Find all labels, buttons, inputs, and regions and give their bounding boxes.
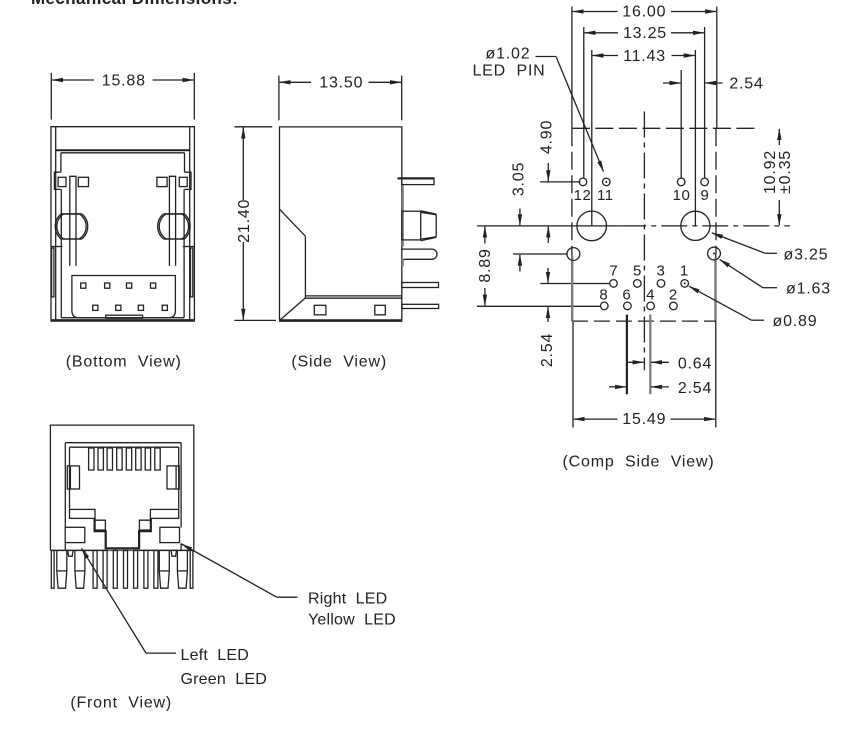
pin 1 hole (681, 280, 689, 288)
right latch square inner (157, 177, 167, 186)
dim 13.25 ext right (704, 27, 706, 178)
pin hole A2 (105, 283, 110, 288)
dim 15.88 arrow right (153, 79, 194, 81)
shelf square left (314, 305, 326, 315)
dim 21.40 bottom extension line (234, 319, 276, 321)
pin 4 hole (647, 302, 655, 310)
svg-text:(Side View): (Side View) (291, 354, 387, 371)
component outline left edge dashed (571, 128, 573, 321)
dim 15.49 ext left (572, 322, 574, 428)
interior floor line (61, 317, 184, 319)
left contact shaft (70, 176, 76, 266)
bottom view inner wall right (189, 127, 191, 320)
leader right LED diagonal (182, 544, 277, 597)
top band lower thin line (61, 152, 185, 154)
big hole left (577, 211, 607, 241)
svg-text:Mechanical Dimensions:: Mechanical Dimensions: (31, 0, 238, 8)
svg-text:9: 9 (700, 187, 709, 204)
svg-text:4: 4 (646, 287, 655, 304)
lower diagonal to corner (280, 298, 305, 320)
svg-text:ø1.63: ø1.63 (786, 280, 831, 297)
dim 0.64 arrow left (651, 361, 669, 363)
dim 13.50 arrow left (280, 81, 311, 83)
pin 10 hole (677, 178, 685, 186)
right latch square outer (179, 177, 187, 186)
dim 4.90 arrow up (547, 227, 549, 243)
dim 16.00 arrow left (573, 11, 618, 13)
dim 15.49 arrow left (574, 418, 618, 420)
contact pin 3 (113, 550, 117, 588)
dim 11.43 ext right (694, 50, 696, 226)
dim 21.40 arrow up (242, 128, 244, 201)
svg-text:ø3.25: ø3.25 (784, 246, 829, 263)
internal vertical line (304, 236, 306, 298)
component outline right edge dashed (715, 128, 717, 254)
pin4 column line gray (649, 315, 651, 395)
big hole right (681, 211, 710, 240)
pin 9 hole (701, 178, 709, 186)
leg R2 (177, 550, 187, 588)
dim 16.00 ext left (571, 7, 573, 129)
leader 0.89 diagonal (689, 286, 752, 320)
dim 3.05 arrow up (519, 255, 521, 272)
left side latch (67, 466, 79, 489)
dim 2.54 bottom arrow right (609, 386, 626, 388)
middle pin (402, 283, 439, 288)
left notch (54, 172, 61, 189)
right side latch divider (175, 466, 177, 489)
latch slot floor gray (106, 549, 139, 551)
dim 15.88 extension line left (50, 73, 52, 120)
svg-text:10: 10 (673, 187, 691, 204)
opening inner wall left (69, 447, 71, 508)
pin hole B2 (116, 305, 121, 310)
right side latch (167, 466, 179, 489)
pin hole A1 (81, 283, 86, 288)
LED housing rect (402, 211, 421, 240)
pin 11 hole (603, 178, 611, 186)
pin housing rectangle (72, 276, 175, 318)
contact pin 7 (154, 550, 158, 588)
component outline bottom edge dashed (572, 320, 716, 322)
bottom view outer body outline (51, 127, 194, 320)
svg-text:7: 7 (609, 263, 618, 280)
contact pin 5 (134, 550, 138, 588)
svg-text:8: 8 (599, 287, 608, 304)
top band bottom thick line (56, 149, 190, 151)
side view body outline (280, 127, 402, 320)
svg-text:LED PIN: LED PIN (472, 63, 545, 80)
left boss bottom flat (61, 238, 81, 240)
right wall stub below window (180, 543, 182, 550)
latch slot floor (105, 547, 140, 549)
hole 1.63 left (567, 248, 580, 261)
dim 16.00 ext right (716, 7, 718, 129)
left column line (60, 153, 62, 172)
leg L1 (57, 550, 67, 588)
opening outer top (65, 442, 181, 444)
dim 10.92 arrow up (778, 129, 780, 145)
center bottom tab (106, 315, 143, 318)
leader 3.25 horizontal (765, 252, 777, 254)
dim 13.50 extension line right (401, 76, 403, 121)
contact pin 1 (93, 550, 97, 588)
svg-text:5: 5 (633, 263, 642, 280)
ext line pin12 row (540, 181, 580, 183)
opening outer wall left (64, 443, 66, 528)
LED dome right edge (435, 214, 437, 237)
dim 21.40 top extension line (234, 126, 272, 128)
gray edge segment upper (402, 186, 404, 247)
LED dome bottom wedge (421, 237, 437, 241)
pin hole B1 (93, 305, 98, 310)
opening outer wall right (180, 443, 182, 528)
latch slot right steps (139, 518, 151, 548)
gray edge segment lower (402, 260, 404, 267)
svg-text:±0.35: ±0.35 (777, 150, 794, 194)
component outline top edge dashed (572, 127, 760, 129)
side view bottom thick edge (279, 319, 402, 322)
svg-text:3.05: 3.05 (510, 162, 527, 196)
svg-text:ø1.02: ø1.02 (486, 45, 531, 62)
hook pin (402, 249, 437, 259)
ext line pin7 row (540, 283, 610, 285)
right step thin echo (139, 520, 149, 530)
contact pin 4 (124, 550, 128, 588)
dim 8.89 arrow up (484, 227, 486, 244)
left LED foot (68, 550, 73, 556)
svg-text:2.54: 2.54 (678, 380, 712, 397)
dim 0.64 arrow right (628, 361, 644, 363)
leader left LED horizontal (146, 652, 176, 654)
svg-text:ø0.89: ø0.89 (773, 313, 818, 330)
shelf square right (375, 305, 386, 315)
component outline left edge gray (571, 256, 573, 321)
left wall stub below window (64, 543, 66, 550)
pin 11 center dot (605, 181, 607, 183)
pin 5 hole (634, 280, 642, 288)
svg-text:4.90: 4.90 (538, 120, 555, 154)
leader left LED diagonal (82, 548, 147, 653)
leg L2 (75, 550, 85, 588)
leg R1 seam (159, 570, 169, 572)
right inner ledge line (183, 246, 195, 248)
right boss top flat (164, 213, 184, 215)
bottom view bottom thick edge (50, 319, 195, 322)
right LED foot (171, 550, 176, 556)
shelf double line upper (305, 295, 401, 297)
pin 3 hole (657, 280, 665, 288)
svg-text:15.88: 15.88 (102, 72, 146, 89)
svg-text:8.89: 8.89 (477, 248, 494, 282)
dim 3.05 arrow down (519, 209, 521, 226)
left step thin echo (95, 520, 105, 530)
pin hole B4 (162, 305, 167, 310)
pin hole B3 (138, 305, 143, 310)
leg R1 (159, 550, 169, 588)
dim 15.49 arrow right (671, 418, 716, 420)
dim 2.54 top ext line pin10 (680, 70, 682, 178)
svg-text:(Comp Side View): (Comp Side View) (563, 454, 715, 471)
svg-text:11: 11 (597, 187, 614, 204)
upper diagonal cut line (280, 209, 306, 236)
leader right LED horizontal (277, 596, 298, 598)
right wall slot (191, 248, 193, 297)
left side latch divider (69, 466, 71, 489)
dim 4.90 arrow down (547, 163, 549, 181)
svg-text:11.43: 11.43 (623, 48, 666, 65)
right contact shaft (169, 176, 175, 266)
pin hole A3 (127, 283, 132, 288)
dim 13.50 extension line left (278, 76, 280, 121)
left inner ledge line (51, 246, 63, 248)
left LED window (65, 527, 85, 542)
pin 2 hole (670, 302, 678, 310)
svg-text:16.00: 16.00 (622, 4, 666, 21)
leg R2 seam (177, 570, 187, 572)
hole 1.63 right (708, 247, 721, 260)
left boss top flat (61, 213, 81, 215)
svg-text:(Front View): (Front View) (70, 695, 172, 712)
dim 11.43 arrow left (593, 55, 619, 57)
top flat pin upper lip (398, 177, 435, 179)
pin6 column line (626, 315, 628, 395)
pin 7 hole (610, 280, 618, 288)
leader 0.89 horizontal (752, 319, 765, 321)
comb right bar (190, 550, 193, 588)
svg-text:3: 3 (656, 263, 665, 280)
component outline right edge solid (715, 254, 717, 428)
dim 13.25 arrow right (671, 32, 704, 34)
dim 13.25 ext left (583, 27, 585, 178)
opening inner top (70, 446, 179, 448)
svg-text:21.40: 21.40 (236, 199, 253, 243)
dim 2.54 top arrow right (705, 82, 722, 84)
bottom view inner wall left (55, 127, 57, 320)
dim 16.00 arrow right (671, 11, 716, 13)
horizontal centerline (620, 225, 790, 227)
right LED window (160, 527, 180, 542)
left wall slot (52, 248, 54, 297)
leader 1.63 horizontal (763, 287, 777, 289)
dim 11.43 arrow right (672, 55, 695, 57)
ext line hole163 row (513, 253, 567, 255)
pin 1 center dot (684, 282, 686, 284)
svg-text:13.25: 13.25 (623, 25, 667, 42)
top flat pin (402, 178, 434, 184)
right column line (184, 153, 186, 172)
pin 12 hole (579, 178, 587, 186)
dim 13.25 arrow left (585, 32, 619, 34)
left latch square outer (58, 177, 66, 186)
front body bottom line (50, 549, 193, 551)
svg-text:Green LED: Green LED (181, 671, 267, 688)
dim 15.88 arrow left (52, 79, 94, 81)
left latch square inner (78, 177, 88, 186)
dim 2.54 top arrow left (663, 82, 681, 84)
leader LED pin diagonal (556, 57, 604, 172)
dim 2.54 left arrow down (547, 268, 549, 283)
LED dome top wedge (421, 211, 437, 215)
dim 8.89 arrow down (484, 288, 486, 306)
svg-text:Yellow LED: Yellow LED (308, 612, 396, 629)
right shelf rect (150, 509, 178, 518)
right notch (185, 172, 192, 189)
leader 3.25 diagonal (712, 233, 765, 253)
right boss bottom flat (164, 238, 184, 240)
dim 2.54 bottom arrow left (651, 386, 669, 388)
leg L1 seam (57, 570, 67, 572)
contact pin 6 (144, 550, 148, 588)
left lower wall line (60, 189, 62, 317)
svg-text:13.50: 13.50 (319, 75, 363, 92)
contact teeth (89, 448, 161, 470)
right lower wall line (183, 189, 185, 317)
dim 15.88 extension line right (193, 73, 195, 120)
hole 1.63 right center dot (713, 253, 715, 255)
front outer shield outline (50, 425, 193, 550)
svg-text:12: 12 (574, 187, 592, 204)
vertical centerline (643, 112, 645, 371)
svg-text:Right LED: Right LED (308, 591, 387, 608)
shelf double line lower (305, 297, 401, 299)
bottom pin (402, 304, 439, 308)
latch slot left steps (95, 518, 106, 548)
dim 2.54 left arrow up (547, 307, 549, 322)
comb left bar (51, 550, 54, 588)
svg-text:2.54: 2.54 (539, 333, 556, 367)
left shelf rect (70, 509, 96, 518)
component outline right edge gray (714, 258, 716, 322)
svg-text:15.49: 15.49 (622, 411, 666, 428)
svg-text:0.64: 0.64 (678, 355, 712, 372)
contact pin 2 (103, 550, 107, 588)
svg-text:(Bottom View): (Bottom View) (66, 354, 182, 371)
svg-text:2: 2 (669, 287, 678, 304)
pin 6 hole (624, 302, 632, 310)
opening inner wall right (178, 447, 180, 508)
dim 11.43 ext left (591, 50, 593, 226)
leader 1.63 diagonal (720, 260, 763, 288)
pin 8 hole (601, 302, 609, 310)
leg L2 seam (75, 570, 85, 572)
left screw boss circles (55, 210, 88, 243)
leader LED pin horizontal (536, 56, 557, 58)
svg-text:1: 1 (680, 263, 689, 280)
ext line circle row left (477, 225, 620, 227)
svg-text:6: 6 (622, 287, 631, 304)
right screw boss circles (158, 210, 191, 243)
pin hole A4 (151, 283, 156, 288)
svg-text:Left LED: Left LED (181, 647, 250, 664)
svg-text:2.54: 2.54 (729, 75, 763, 92)
ext line pin8 row (477, 305, 601, 307)
dim 13.50 arrow right (369, 81, 402, 83)
dim 21.40 arrow down (242, 242, 244, 320)
dim 10.92 arrow down (778, 200, 780, 225)
